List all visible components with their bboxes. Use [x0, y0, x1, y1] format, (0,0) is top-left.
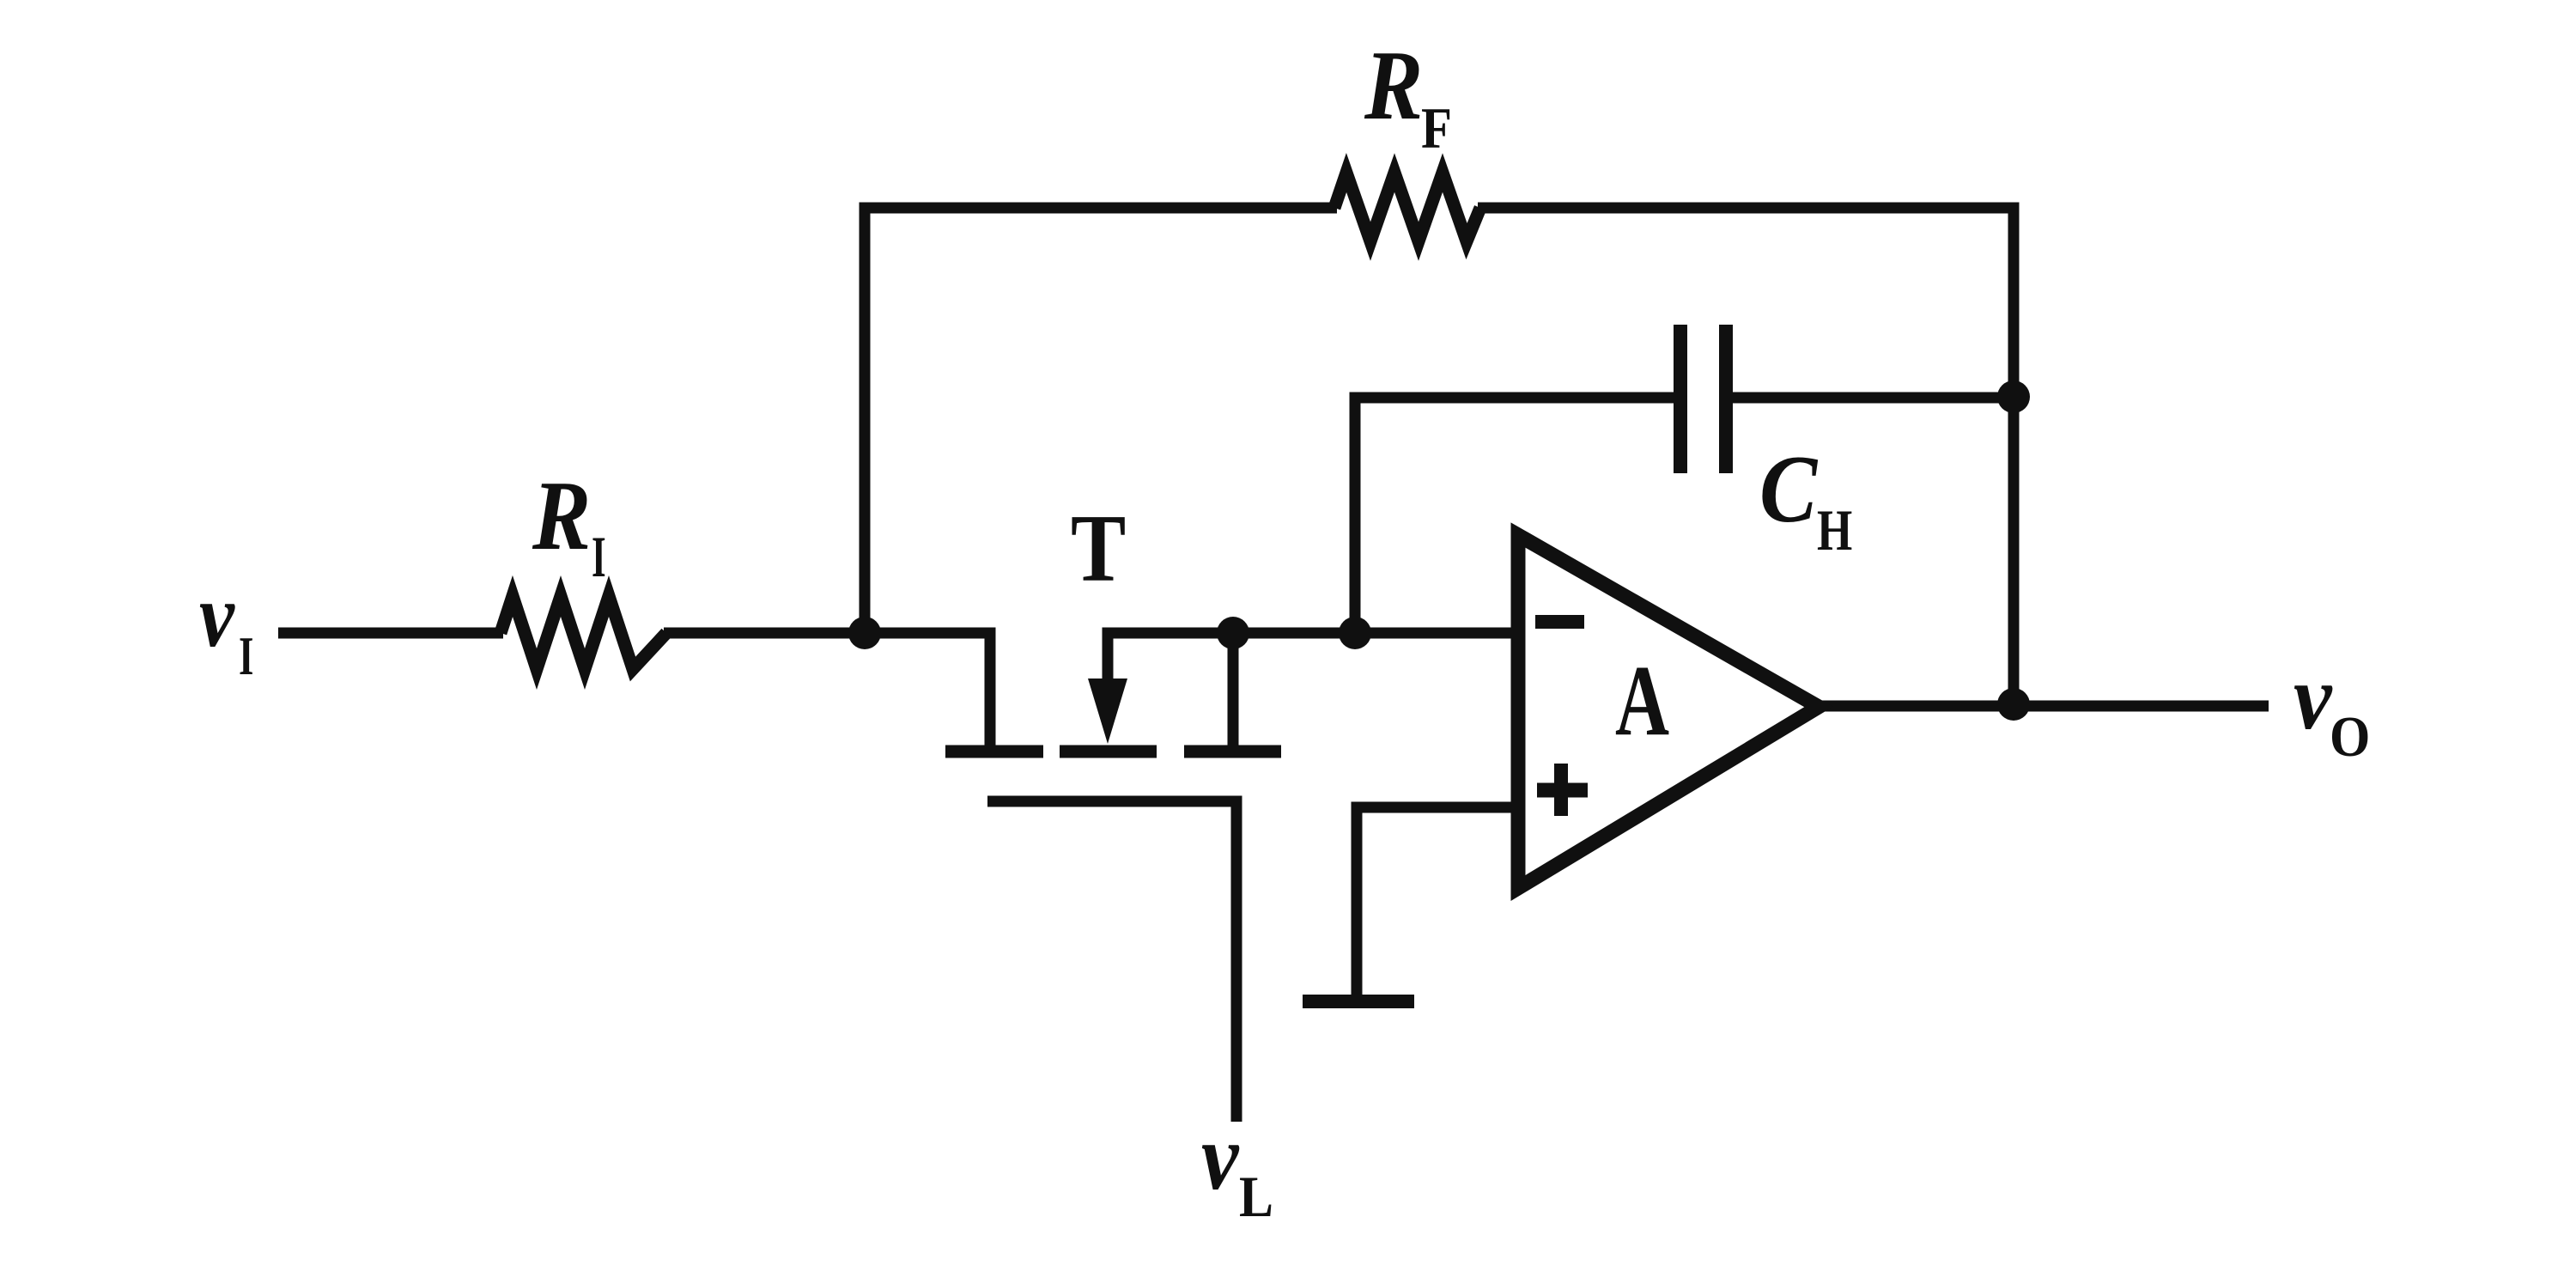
svg-text:R: R [1364, 31, 1423, 141]
svg-text:I: I [239, 625, 253, 685]
svg-text:F: F [1421, 95, 1452, 161]
svg-text:R: R [532, 461, 591, 571]
svg-text:C: C [1759, 436, 1819, 543]
svg-text:T: T [1071, 495, 1126, 601]
svg-text:L: L [1239, 1164, 1273, 1228]
svg-text:v: v [2293, 646, 2333, 749]
svg-text:I: I [592, 525, 606, 589]
svg-text:v: v [199, 565, 235, 666]
svg-text:O: O [2330, 704, 2370, 768]
svg-text:v: v [1201, 1104, 1240, 1210]
svg-text:H: H [1817, 499, 1852, 563]
svg-text:A: A [1615, 646, 1669, 758]
